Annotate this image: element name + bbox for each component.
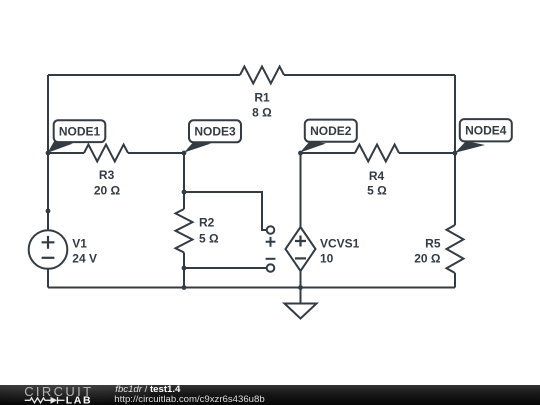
node NODE3 <box>184 120 241 152</box>
svg-text:NODE4: NODE4 <box>465 124 507 138</box>
VCVS1 minus control sign <box>266 258 276 260</box>
svg-text:8 Ω: 8 Ω <box>252 106 272 120</box>
svg-text:V1: V1 <box>72 236 87 250</box>
VCVS1 minus control terminal <box>267 264 275 272</box>
node NODE1 <box>48 120 106 153</box>
node R2 top junction <box>182 190 187 195</box>
svg-text:http://circuitlab.com/c9xzr6s4: http://circuitlab.com/c9xzr6s436u8b <box>114 394 264 405</box>
svg-text:R2: R2 <box>199 215 215 229</box>
wire R4 right stub <box>399 152 455 154</box>
svg-text:NODE3: NODE3 <box>194 125 236 139</box>
ground <box>285 304 317 319</box>
wire R3 left stub <box>48 152 84 154</box>
node R2 bottom junction <box>182 266 187 271</box>
VCVS1 plus control terminal <box>267 226 275 234</box>
resistor R1 <box>240 67 284 120</box>
wire left vertical <box>47 75 49 230</box>
wire R2 bottom stub <box>183 253 185 269</box>
wire top right segment <box>284 74 455 76</box>
svg-text:NODE2: NODE2 <box>310 124 352 138</box>
wire ground stub <box>300 288 302 304</box>
node NODE4 junction <box>453 151 458 156</box>
svg-text:5 Ω: 5 Ω <box>199 232 219 246</box>
svg-text:24 V: 24 V <box>72 252 97 266</box>
svg-text:10: 10 <box>320 252 334 266</box>
svg-text:R3: R3 <box>99 168 115 182</box>
node bottom rail VCVS junction <box>298 285 303 290</box>
wire R3 right stub <box>128 152 184 154</box>
wire NODE3 vertical drop <box>183 153 185 192</box>
node NODE2 junction <box>298 151 303 156</box>
svg-text:VCVS1: VCVS1 <box>320 237 360 251</box>
footer bar <box>0 385 540 405</box>
svg-text:R4: R4 <box>369 169 385 183</box>
svg-text:20 Ω: 20 Ω <box>94 183 121 197</box>
node NODE4 <box>455 119 512 153</box>
node V1 top junction <box>46 209 51 214</box>
node bottom rail R2 junction <box>182 285 187 290</box>
svg-text:20 Ω: 20 Ω <box>414 251 441 265</box>
VCVS1 plus control sign <box>266 237 276 247</box>
wire top left segment <box>48 74 240 76</box>
svg-text:LAB: LAB <box>66 395 92 405</box>
wire V1 bottom stub <box>47 269 49 288</box>
resistor R5 <box>414 225 463 273</box>
wire NODE2 vertical drop <box>300 153 302 227</box>
logo resistor squiggle and diode <box>25 397 65 404</box>
wire right vertical upper <box>454 75 456 225</box>
svg-text:NODE1: NODE1 <box>59 125 101 139</box>
node NODE3 junction <box>182 151 187 156</box>
resistor R2 <box>176 209 220 253</box>
wire R2 top stub <box>183 192 185 209</box>
resistor R3 <box>84 145 128 198</box>
wire R2 branch to bottom rail <box>183 268 185 288</box>
voltage source V1 <box>29 230 97 269</box>
wire right vertical lower <box>454 273 456 288</box>
svg-text:5 Ω: 5 Ω <box>367 183 387 197</box>
dependent source VCVS1 <box>286 227 360 271</box>
wire R4 left stub <box>301 152 356 154</box>
wire VCVS minus control <box>184 267 267 269</box>
wire VCVS plus control <box>184 192 267 230</box>
wire bottom rail <box>48 287 455 289</box>
wire VCVS bottom stub <box>300 271 302 288</box>
resistor R4 <box>355 145 399 198</box>
node NODE1 junction <box>46 151 51 156</box>
svg-text:R1: R1 <box>254 90 270 104</box>
svg-text:R5: R5 <box>425 236 441 250</box>
node NODE2 <box>300 120 357 153</box>
